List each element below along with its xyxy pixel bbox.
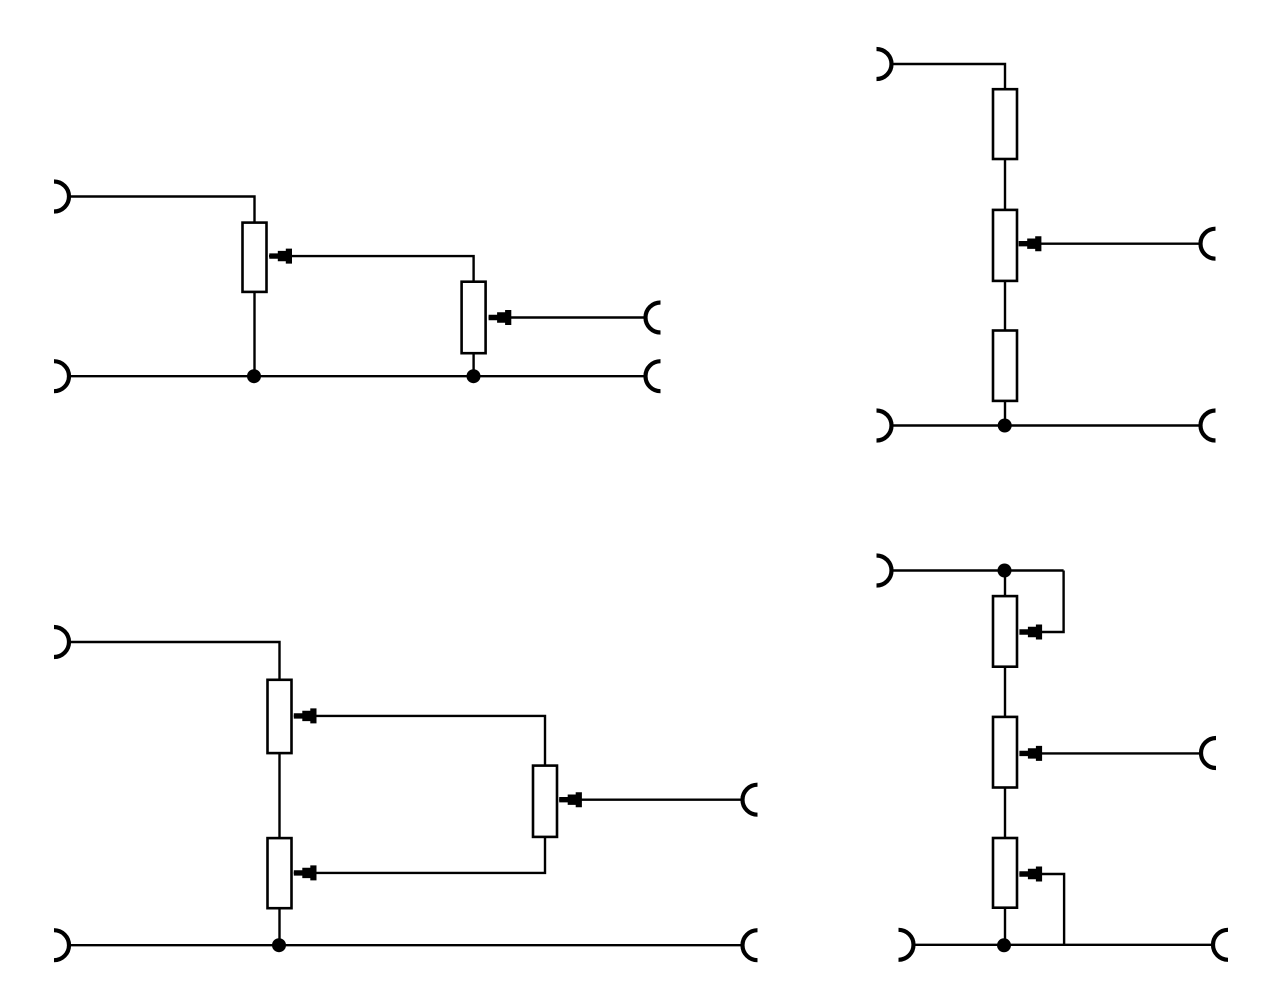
terminal J13 (input top left)	[877, 556, 892, 586]
wire R11 wiper loop to ground rail	[1019, 874, 1064, 945]
terminal J1 (input top left)	[54, 182, 69, 212]
terminal J5 (input top left)	[877, 49, 892, 79]
node junction dot R11-ground	[997, 938, 1011, 952]
potentiometer R1 body	[243, 223, 267, 292]
wire R6 wiper to R8 top	[294, 716, 545, 766]
terminal J15 (input bottom left)	[899, 930, 914, 960]
terminal J6 (output wiper)	[1201, 229, 1216, 259]
node junction dot R7-ground	[272, 938, 286, 952]
wire R7 bottom to ground rail	[278, 908, 280, 945]
terminal J16 (output ground)	[1213, 930, 1228, 960]
wire R8 wiper to output	[559, 799, 743, 801]
terminal J14 (output wiper)	[1201, 738, 1216, 768]
wire R2 bottom to ground rail	[472, 353, 474, 376]
wire ground rail circuit 3	[69, 944, 743, 946]
node junction dot R2-ground	[467, 369, 481, 383]
wire R6 bottom to R7 top	[278, 753, 280, 838]
wire R5 bottom to ground rail	[1004, 401, 1006, 426]
wire loop top to R9 wiper	[1020, 571, 1064, 633]
wire R11 bottom to ground rail	[1004, 908, 1006, 946]
potentiometer R6 body	[268, 680, 292, 753]
wire R2 wiper to output	[489, 316, 646, 318]
potentiometer R2 body	[462, 282, 486, 354]
wiper arrow R8	[559, 792, 582, 807]
terminal J12 (output ground)	[743, 930, 758, 960]
wire R1 bottom to ground rail	[253, 292, 255, 376]
wire J13 along top to loop corner	[891, 569, 1063, 571]
potentiometer R4 body	[993, 210, 1017, 281]
wiper arrow R1	[269, 249, 292, 264]
wire ground rail circuit 2	[891, 424, 1201, 426]
wire R4 bottom to R5 top	[1004, 281, 1006, 331]
wire J1 to R1 top	[69, 197, 255, 223]
resistor R5 body	[993, 331, 1017, 401]
terminal J2 (input bottom left)	[54, 361, 69, 391]
wire R4 wiper to output	[1020, 242, 1201, 244]
terminal J9 (input top left)	[54, 627, 69, 657]
potentiometer R11 body	[993, 838, 1017, 908]
wire top rail down to R9 top	[1004, 571, 1006, 597]
wiper arrow R9	[1019, 625, 1042, 640]
wire R10 bottom to R11 top	[1004, 788, 1006, 839]
node junction dot R5-ground	[998, 419, 1012, 433]
wiper arrow R10	[1019, 746, 1042, 761]
wiper arrow R2	[489, 310, 512, 325]
wire ground rail circuit 4	[913, 944, 1213, 946]
potentiometer R8 body	[533, 766, 557, 837]
wiper arrow R11	[1019, 867, 1042, 882]
wire R9 bottom to R10 top	[1004, 667, 1006, 717]
terminal J11 (output wiper)	[743, 785, 758, 815]
wiper arrow R4	[1019, 236, 1042, 251]
terminal J4 (output ground)	[646, 361, 661, 391]
terminal J3 (output wiper)	[646, 303, 661, 333]
terminal J10 (input bottom left)	[54, 930, 69, 960]
terminal J7 (input bottom left)	[877, 411, 892, 441]
wire R10 wiper to output	[1020, 752, 1202, 754]
potentiometer R9 body	[993, 596, 1017, 667]
node junction dot R1-ground	[247, 369, 261, 383]
wiper arrow R6	[294, 708, 317, 723]
potentiometer R10 body	[993, 717, 1017, 788]
wire ground rail circuit 1	[69, 375, 646, 377]
wire R3 bottom to R4 top	[1004, 159, 1006, 210]
wire J9 to R6 top	[69, 642, 280, 680]
terminal J8 (output ground)	[1201, 411, 1216, 441]
potentiometer R7 body	[268, 838, 292, 908]
wire R1 wiper to R2 top	[269, 256, 474, 282]
wire J5 to R3 top	[891, 64, 1005, 89]
wiper arrow R7	[294, 865, 317, 880]
wire R8 bottom to R7 wiper	[294, 837, 545, 873]
resistor R3 body	[993, 89, 1017, 159]
node junction dot top rail R9	[998, 564, 1012, 578]
